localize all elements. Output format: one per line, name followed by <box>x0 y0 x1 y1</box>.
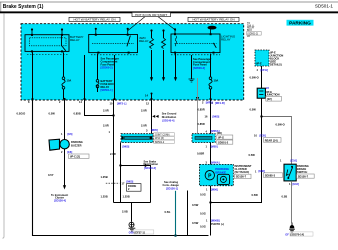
svg-text:SD501-1: SD501-1 <box>315 3 334 8</box>
svg-text:HOT W/ BATTERY RELAY ON: HOT W/ BATTERY RELAY ON <box>73 18 115 22</box>
svg-text:[SD140-4]: [SD140-4] <box>162 118 174 122</box>
svg-text:0.5W: 0.5W <box>192 203 199 207</box>
svg-text:0.5W: 0.5W <box>250 108 257 112</box>
svg-text:1.25B: 1.25B <box>123 195 130 199</box>
svg-text:0.85B: 0.85B <box>74 112 81 116</box>
svg-text:0.5B: 0.5B <box>282 195 288 199</box>
svg-text:PHOTO (+): PHOTO (+) <box>211 222 224 226</box>
svg-text:[M05A]: [M05A] <box>211 129 220 133</box>
svg-text:HOT IN ON OR START: HOT IN ON OR START <box>135 13 167 17</box>
svg-text:[M05]: [M05] <box>123 145 130 149</box>
svg-text:2.0B: 2.0B <box>122 210 128 214</box>
svg-text:0.5Y: 0.5Y <box>48 173 54 177</box>
svg-text:2.0R: 2.0R <box>103 124 109 128</box>
svg-text:[SD501-2]: [SD501-2] <box>248 33 259 35</box>
svg-text:SD501-2: SD501-2 <box>155 141 165 144</box>
svg-text:[M06B]: [M06B] <box>211 218 220 222</box>
svg-text:SD126-7: SD126-7 <box>236 175 247 179</box>
svg-text:[SD570-14]: [SD570-14] <box>291 232 305 236</box>
svg-text:RELAY: RELAY <box>221 38 231 42</box>
svg-text:0.5W-O: 0.5W-O <box>276 123 285 127</box>
svg-text:0.5W: 0.5W <box>192 221 199 225</box>
svg-text:0.5G: 0.5G <box>200 193 206 197</box>
svg-text:[SD140-2]: [SD140-2] <box>144 166 156 170</box>
svg-text:[MF1]: [MF1] <box>206 101 213 105</box>
svg-text:0.85R: 0.85R <box>198 108 205 112</box>
svg-text:[E35]: [E35] <box>260 133 266 137</box>
svg-text:[SD501-1]: [SD501-1] <box>101 88 113 92</box>
svg-text:PARKING: PARKING <box>289 21 311 27</box>
svg-text:I/P-G: I/P-G <box>218 135 224 139</box>
svg-text:[SD126-1]: [SD126-1] <box>166 186 178 190</box>
svg-text:[M05]: [M05] <box>211 144 218 148</box>
svg-text:[E16]: [E16] <box>293 182 299 186</box>
svg-text:I/P-E: I/P-E <box>256 62 262 66</box>
svg-text:G09: G09 <box>129 230 134 234</box>
svg-text:Distribution: Distribution <box>162 115 177 119</box>
svg-text:LR: LR <box>247 36 250 38</box>
svg-text:RELAY: RELAY <box>139 39 149 43</box>
svg-text:0.5G: 0.5G <box>200 212 206 216</box>
svg-text:I/P-C [2]: I/P-C [2] <box>70 154 80 158</box>
svg-text:0.5W-O: 0.5W-O <box>250 76 259 80</box>
svg-text:JOINT CONN.: JOINT CONN. <box>155 134 171 137</box>
svg-text:Conv--Gauge: Conv--Gauge <box>163 183 180 187</box>
svg-text:RELAY: RELAY <box>70 38 80 42</box>
svg-text:JUNCTION: JUNCTION <box>266 93 279 97</box>
svg-text:SD585-3: SD585-3 <box>265 174 276 178</box>
svg-text:BUZZER: BUZZER <box>71 143 82 147</box>
svg-text:DETAILS): DETAILS) <box>270 63 282 67</box>
svg-text:0.5W: 0.5W <box>49 112 56 116</box>
svg-text:[M05]: [M05] <box>213 114 220 118</box>
svg-text:[E6]: [E6] <box>68 132 73 136</box>
svg-text:GF: GF <box>285 232 289 236</box>
svg-text:SWITCH: SWITCH <box>297 170 307 174</box>
svg-text:1.25B: 1.25B <box>101 175 108 179</box>
svg-text:SD150-7: SD150-7 <box>298 174 309 178</box>
svg-text:REAR [14]: REAR [14] <box>265 138 278 142</box>
svg-text:[E16]: [E16] <box>291 158 297 162</box>
svg-text:10A: 10A <box>214 79 219 83</box>
svg-text:DIODE: DIODE <box>128 184 136 188</box>
svg-text:0.5G: 0.5G <box>165 210 171 214</box>
svg-text:0.5W: 0.5W <box>249 153 256 157</box>
svg-text:Brake System (1): Brake System (1) <box>3 4 44 10</box>
svg-text:0.5G/O: 0.5G/O <box>17 112 26 116</box>
svg-text:Distribution: Distribution <box>144 162 159 166</box>
svg-text:2.0R: 2.0R <box>141 109 147 113</box>
svg-text:[SD126-4]: [SD126-4] <box>54 198 66 202</box>
svg-text:0.5W: 0.5W <box>252 193 259 197</box>
svg-text:[M05]: [M05] <box>151 128 158 132</box>
svg-text:0.5G: 0.5G <box>200 225 206 229</box>
svg-text:BRAKE: BRAKE <box>215 170 226 174</box>
svg-text:[MF1-R]: [MF1-R] <box>215 101 225 105</box>
svg-text:[M06A]: [M06A] <box>211 160 220 164</box>
svg-text:[SD500-3]: [SD500-3] <box>193 66 205 70</box>
svg-text:2.0R: 2.0R <box>141 124 147 128</box>
svg-text:[E36]: [E36] <box>259 169 265 173</box>
svg-text:[M05]: [M05] <box>127 180 134 184</box>
svg-text:[M06]: [M06] <box>211 187 218 191</box>
svg-text:[MF2-L]: [MF2-L] <box>117 102 126 106</box>
svg-text:10A: 10A <box>67 79 72 83</box>
svg-text:HOT W/ BATTERY RELAY ON: HOT W/ BATTERY RELAY ON <box>192 18 234 22</box>
svg-text:[E6]: [E6] <box>67 150 72 154</box>
svg-text:2.0R: 2.0R <box>110 152 116 156</box>
svg-text:SD501-2: SD501-2 <box>218 140 229 144</box>
svg-text:[SD500-2]: [SD500-2] <box>101 66 113 70</box>
svg-text:0.85R: 0.85R <box>198 122 205 126</box>
svg-text:I/P-D [3]: I/P-D [3] <box>155 137 164 140</box>
svg-text:0.85R: 0.85R <box>197 152 204 156</box>
svg-text:[22]: [22] <box>267 97 272 101</box>
svg-text:1.25B: 1.25B <box>101 195 108 199</box>
svg-text:(W/ TACHO): (W/ TACHO) <box>235 170 250 174</box>
svg-text:2.0R: 2.0R <box>103 109 109 113</box>
svg-text:[I/P-E]: [I/P-E] <box>261 68 269 72</box>
